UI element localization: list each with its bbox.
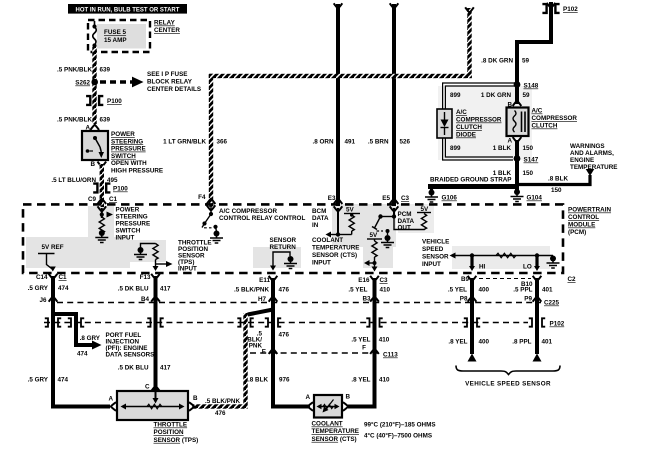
svg-text:474: 474 <box>58 285 69 292</box>
PCM data out label <box>398 211 415 232</box>
A/C compressor clutch box <box>507 108 529 137</box>
svg-text:COMPRESSOR: COMPRESSOR <box>532 115 578 122</box>
svg-text:.8 ORN: .8 ORN <box>313 139 334 146</box>
svg-text:99°C (210°F)–185 OHMS: 99°C (210°F)–185 OHMS <box>364 421 436 429</box>
terminal A of clutch <box>507 137 521 144</box>
thin dashed link B9-B10 <box>479 278 531 280</box>
svg-text:C3: C3 <box>401 195 410 202</box>
svg-text:SENSOR: SENSOR <box>270 237 297 244</box>
svg-text:POSITION: POSITION <box>154 429 185 436</box>
svg-text:1 DK GRN: 1 DK GRN <box>481 92 512 99</box>
svg-text:.5 YEL: .5 YEL <box>348 287 367 294</box>
wire .8 BLK 150 to warnings <box>517 175 590 194</box>
warnings and alarms note <box>570 143 617 171</box>
svg-text:E16: E16 <box>358 277 370 284</box>
svg-text:C1: C1 <box>109 196 118 203</box>
svg-text:CONTROL: CONTROL <box>568 214 599 221</box>
PS switch input label <box>116 207 151 242</box>
wire B to C9 (.5 LT BLU/ORN 495, hatched) <box>100 164 104 207</box>
svg-text:417: 417 <box>160 365 171 372</box>
svg-text:SEE I P FUSE: SEE I P FUSE <box>147 71 187 78</box>
TPS input circuit <box>134 244 173 272</box>
svg-text:OPEN WITH: OPEN WITH <box>111 160 147 167</box>
svg-text:.8 GRY: .8 GRY <box>80 335 101 342</box>
svg-text:E5: E5 <box>382 195 390 202</box>
splice S147 <box>514 155 539 163</box>
wire fuse to PS switch (.5 PNK/BLK 639, hatched) <box>92 46 96 124</box>
svg-text:RETURN: RETURN <box>270 244 297 251</box>
svg-text:LO: LO <box>523 264 532 271</box>
svg-text:526: 526 <box>400 139 411 146</box>
connector dashed line 1 (C225) <box>57 300 560 307</box>
svg-text:ENGINE: ENGINE <box>570 157 594 164</box>
svg-text:J6: J6 <box>39 297 47 304</box>
svg-text:150: 150 <box>523 145 534 152</box>
svg-text:HIGH PRESSURE: HIGH PRESSURE <box>111 168 163 175</box>
svg-text:S147: S147 <box>524 157 539 164</box>
wire E16 to F to CTS B <box>348 301 390 407</box>
svg-text:E3: E3 <box>328 195 336 202</box>
svg-text:POWERTRAIN: POWERTRAIN <box>568 207 611 214</box>
svg-text:639: 639 <box>100 117 111 124</box>
A/C compressor clutch diode box <box>437 109 452 138</box>
svg-text:DIODE: DIODE <box>456 132 476 139</box>
svg-text:COOLANT: COOLANT <box>312 421 343 428</box>
svg-text:OUT: OUT <box>398 225 411 232</box>
label .8 GRY 474 <box>77 335 101 358</box>
svg-text:A/C COMPRESSOR: A/C COMPRESSOR <box>219 208 278 215</box>
svg-text:STEERING: STEERING <box>116 214 148 221</box>
banner HOT IN RUN, BULB TEST OR START <box>68 4 187 14</box>
svg-text:HI: HI <box>479 264 486 271</box>
svg-text:SWITCH: SWITCH <box>111 153 136 160</box>
svg-text:5V: 5V <box>370 232 379 239</box>
svg-text:.8 YEL: .8 YEL <box>351 377 370 384</box>
svg-text:.5 BLK/PNK: .5 BLK/PNK <box>234 287 269 294</box>
svg-text:TEMPERATURE: TEMPERATURE <box>312 428 359 435</box>
relay center label <box>154 20 180 35</box>
svg-text:C2: C2 <box>568 276 577 283</box>
TPS input label <box>178 240 212 273</box>
svg-text:C113: C113 <box>383 352 398 359</box>
svg-text:899: 899 <box>450 92 461 99</box>
throttle position sensor box <box>117 391 188 420</box>
svg-text:BLOCK RELAY: BLOCK RELAY <box>147 79 193 86</box>
terminal B of PS switch <box>90 161 106 168</box>
label 1 LT GRN/BLK 366 <box>163 139 227 146</box>
CTS terminals <box>305 394 350 411</box>
bottom exit C14/C1 wire .5 GRY 474 <box>28 274 69 301</box>
clutch label <box>532 108 578 130</box>
svg-text:.5 YEL: .5 YEL <box>351 336 370 343</box>
svg-text:C3: C3 <box>380 277 389 284</box>
wire E11 to E (via H7) <box>271 301 275 356</box>
svg-text:400: 400 <box>479 339 490 346</box>
svg-text:DATA: DATA <box>312 215 329 222</box>
svg-text:CLUTCH: CLUTCH <box>456 124 482 131</box>
label .5 GRY 474 (lower) <box>28 377 69 384</box>
svg-text:.8 BLK: .8 BLK <box>548 176 568 183</box>
svg-text:.8 DK GRN: .8 DK GRN <box>481 58 513 65</box>
svg-text:476: 476 <box>279 287 290 294</box>
svg-text:476: 476 <box>215 410 226 417</box>
wire 1 LT GRN/BLK 366 (hatched) from top to F4 <box>209 7 474 207</box>
CTS input circuit <box>364 232 382 272</box>
label .5 BLK/PNK 476 (stacked) <box>247 331 289 350</box>
dashed arrow to IP fuse block <box>100 77 144 88</box>
label .8 DK GRN 59 <box>481 58 529 65</box>
svg-text:SENSOR (CTS): SENSOR (CTS) <box>312 436 357 443</box>
svg-text:B: B <box>346 394 351 401</box>
bottom exit B10/C2 wire .5 PPL 401 <box>513 276 576 301</box>
BCM data in circuit <box>326 199 361 238</box>
svg-text:G106: G106 <box>442 195 458 202</box>
svg-text:TEMPERATURE: TEMPERATURE <box>570 164 617 171</box>
svg-text:F4: F4 <box>198 194 206 201</box>
svg-text:.5 PPL: .5 PPL <box>513 287 532 294</box>
svg-text:BRAIDED GROUND STRAP: BRAIDED GROUND STRAP <box>430 177 512 184</box>
svg-text:VEHICLE SPEED SENSOR: VEHICLE SPEED SENSOR <box>465 381 551 388</box>
connector dashed line 2 (P102) <box>44 321 565 328</box>
svg-text:150: 150 <box>551 187 562 194</box>
svg-text:.5 PNK/BLK: .5 PNK/BLK <box>57 67 92 74</box>
svg-text:P100: P100 <box>107 98 122 105</box>
line1 terminal labels <box>39 296 532 305</box>
label .5 LT BLU/ORN 495 <box>51 177 118 184</box>
PCM dashed box <box>23 204 563 273</box>
svg-text:B4: B4 <box>141 296 150 303</box>
svg-text:C9: C9 <box>88 196 97 203</box>
svg-text:SENSOR: SENSOR <box>422 254 449 261</box>
terminal B of clutch <box>507 101 521 109</box>
svg-text:B3: B3 <box>362 296 371 303</box>
svg-text:WARNINGS: WARNINGS <box>570 143 605 150</box>
svg-text:F: F <box>362 345 366 352</box>
svg-text:59: 59 <box>522 58 530 65</box>
svg-text:401: 401 <box>542 287 553 294</box>
PCM label <box>568 207 611 237</box>
svg-text:CENTER: CENTER <box>154 27 180 34</box>
svg-text:474: 474 <box>58 377 69 384</box>
line3 terminals E and F <box>262 345 379 356</box>
PS switch label <box>111 131 163 175</box>
terminals C9 / C1 <box>88 196 118 204</box>
svg-text:410: 410 <box>379 377 390 384</box>
5V REF source <box>38 244 64 272</box>
svg-text:P100: P100 <box>113 186 128 193</box>
TPS label <box>154 422 199 444</box>
splice S262 <box>75 79 98 87</box>
label .5 PNK/BLK 639 (lower) <box>57 117 111 124</box>
branch wire to TPS B (hatched) <box>192 310 273 409</box>
svg-text:SWITCH: SWITCH <box>116 228 141 235</box>
svg-text:5V REF: 5V REF <box>42 244 64 251</box>
svg-text:476: 476 <box>279 331 290 338</box>
svg-text:4°C (40°F)–7500 OHMS: 4°C (40°F)–7500 OHMS <box>364 432 432 440</box>
svg-text:15 AMP: 15 AMP <box>104 37 127 44</box>
A/C compressor control relay circuit <box>202 199 223 243</box>
label .5 BLK/PNK 476 (at TPS B) <box>205 398 240 417</box>
sensor return circuit <box>270 237 298 271</box>
bottom exit E16/C3 wire .5 YEL 410 <box>348 276 390 301</box>
svg-text:C1: C1 <box>59 274 68 281</box>
svg-text:.5 BLK/PNK: .5 BLK/PNK <box>205 398 240 405</box>
svg-text:F13: F13 <box>140 274 151 281</box>
svg-text:491: 491 <box>345 139 356 146</box>
svg-text:POWER: POWER <box>116 207 140 214</box>
svg-text:FUSE 5: FUSE 5 <box>104 29 127 36</box>
PCM top edge terminals <box>198 194 409 202</box>
svg-text:899: 899 <box>450 145 461 152</box>
line1 crossing flares <box>49 297 542 302</box>
label .5 BRN 526 <box>368 139 411 146</box>
fuse 5 label <box>104 29 127 44</box>
svg-text:P9: P9 <box>524 296 532 303</box>
svg-text:PRESSURE: PRESSURE <box>116 221 151 228</box>
svg-text:401: 401 <box>542 339 553 346</box>
svg-text:(PCM): (PCM) <box>568 229 586 236</box>
svg-text:C14: C14 <box>36 274 48 281</box>
svg-text:A: A <box>507 138 512 145</box>
svg-text:INPUT: INPUT <box>116 235 135 242</box>
svg-text:VEHICLE: VEHICLE <box>422 239 449 246</box>
svg-text:G104: G104 <box>527 195 543 202</box>
svg-text:.5 DK BLU: .5 DK BLU <box>118 286 149 293</box>
wire .5 DK BLU to TPS C <box>118 301 171 391</box>
connector P102 at top <box>542 2 578 44</box>
bottom exit B9 wire .5 YEL 400 <box>448 276 490 301</box>
svg-text:410: 410 <box>379 336 390 343</box>
svg-text:P102: P102 <box>563 6 578 13</box>
label 899 (lower) <box>450 145 461 152</box>
TPS terminals <box>108 384 198 411</box>
fuse F5 symbol <box>92 21 96 48</box>
svg-text:976: 976 <box>279 377 290 384</box>
PFI note <box>106 332 155 359</box>
svg-text:150: 150 <box>523 170 534 177</box>
svg-text:INPUT: INPUT <box>178 266 197 273</box>
svg-text:A/C: A/C <box>456 109 467 116</box>
svg-text:.8 BLK: .8 BLK <box>248 377 268 384</box>
terminal A of PS switch <box>85 125 99 132</box>
svg-text:1 LT GRN/BLK: 1 LT GRN/BLK <box>163 139 206 146</box>
svg-text:PCM: PCM <box>398 211 412 218</box>
svg-text:.8 YEL: .8 YEL <box>448 339 467 346</box>
svg-text:S262: S262 <box>75 80 90 87</box>
svg-text:639: 639 <box>100 67 111 74</box>
wires crossing line1/line2 (left) <box>51 301 55 407</box>
svg-text:MODULE: MODULE <box>568 222 595 229</box>
svg-text:.5 GRY: .5 GRY <box>28 285 49 292</box>
wire P102 to S148 (.8 DK GRN 59) <box>517 42 551 84</box>
svg-text:CLUTCH: CLUTCH <box>532 123 558 130</box>
vertical wire .8 ORN 491 <box>334 3 343 206</box>
relay center dashed box <box>88 20 150 52</box>
svg-text:E11: E11 <box>259 277 270 284</box>
svg-text:INPUT: INPUT <box>422 261 441 268</box>
wire S147 to G104 (1 BLK 150) <box>493 159 534 191</box>
svg-text:IN: IN <box>312 222 319 229</box>
svg-text:C225: C225 <box>544 300 560 307</box>
coolant temperature sensor box <box>314 395 342 418</box>
svg-text:.5 DK BLU: .5 DK BLU <box>118 365 149 372</box>
svg-text:E: E <box>262 349 266 356</box>
svg-text:SPEED: SPEED <box>422 246 444 253</box>
svg-text:COOLANT: COOLANT <box>312 237 343 244</box>
diode label <box>456 109 502 139</box>
VSS wire B10 lower (.8 PPL 401) <box>512 301 552 362</box>
label .5 PNK/BLK 639 (upper) <box>57 67 111 74</box>
svg-text:INPUT: INPUT <box>312 260 331 267</box>
svg-text:HOT IN RUN, BULB TEST OR START: HOT IN RUN, BULB TEST OR START <box>76 7 180 13</box>
svg-text:.5 GRY: .5 GRY <box>28 377 49 384</box>
svg-text:S148: S148 <box>524 83 539 90</box>
connector P100 (lower) <box>93 184 128 193</box>
ground G104 <box>511 189 543 202</box>
svg-text:TEMPERATURE: TEMPERATURE <box>312 245 359 252</box>
svg-text:.5 YEL: .5 YEL <box>448 287 467 294</box>
line2 bracket pairs <box>45 318 545 326</box>
wire clutch to S147 (1 BLK 150) <box>493 140 534 158</box>
svg-text:P102: P102 <box>550 321 565 328</box>
connector P100 (upper) <box>86 96 122 105</box>
svg-text:A/C: A/C <box>532 108 543 115</box>
svg-text:H7: H7 <box>258 296 267 303</box>
svg-text:DATA SENSORS: DATA SENSORS <box>106 352 155 359</box>
wire .5 GRY to TPS A <box>53 405 110 407</box>
bottom exit F13 wire .5 DK BLU 417 <box>118 274 171 301</box>
VSS brace <box>456 366 560 388</box>
wire S148 to clutch (1 DK GRN 59) <box>481 85 530 105</box>
svg-text:C: C <box>145 384 150 391</box>
svg-text:PNK: PNK <box>249 342 263 349</box>
wire .8 BLK 976 to CTS A <box>248 352 310 407</box>
A/C relay control label <box>219 208 305 222</box>
svg-text:COMPRESSOR: COMPRESSOR <box>456 117 502 124</box>
svg-text:400: 400 <box>479 287 490 294</box>
braided ground strap <box>428 177 517 187</box>
svg-text:410: 410 <box>380 287 391 294</box>
svg-text:SENSOR (TPS): SENSOR (TPS) <box>154 437 199 444</box>
svg-text:POWER: POWER <box>111 131 135 138</box>
svg-text:5V: 5V <box>421 206 430 213</box>
svg-text:P8: P8 <box>460 296 468 303</box>
svg-text:STEERING: STEERING <box>111 138 143 145</box>
scan shading patches <box>26 86 550 269</box>
bottom exit E11 wire .5 BLK/PNK 476 <box>234 276 290 301</box>
svg-text:.5 LT BLU/ORN: .5 LT BLU/ORN <box>51 177 96 184</box>
svg-text:RELAY: RELAY <box>154 20 176 27</box>
thin wire diode to S147 <box>443 138 513 160</box>
svg-text:SENSOR (CTS): SENSOR (CTS) <box>312 252 357 259</box>
svg-text:1 BLK: 1 BLK <box>493 145 512 152</box>
svg-text:B: B <box>90 161 95 168</box>
svg-text:B: B <box>193 395 198 402</box>
VSS wire B9 lower (.8 YEL 400) <box>448 301 489 362</box>
ground G106 <box>425 187 457 203</box>
VSS input label <box>422 239 449 269</box>
label .8 ORN 491 <box>313 139 356 146</box>
svg-text:AND ALARMS,: AND ALARMS, <box>570 150 614 157</box>
svg-text:BCM: BCM <box>312 208 326 215</box>
vertical wire .5 BRN 526 <box>390 3 399 206</box>
svg-text:PRESSURE: PRESSURE <box>111 146 146 153</box>
CTS input label <box>312 237 359 267</box>
thin wire 899 to diode <box>443 83 517 109</box>
svg-text:A: A <box>305 394 310 401</box>
splice S148 <box>514 81 539 89</box>
VSS input circuit <box>450 253 560 272</box>
CTS resistance note <box>364 421 436 440</box>
svg-text:5V: 5V <box>346 207 355 214</box>
BCM data in label <box>312 208 329 229</box>
svg-text:366: 366 <box>217 139 228 146</box>
svg-text:59: 59 <box>523 92 531 99</box>
CTS label <box>312 421 359 443</box>
svg-text:A: A <box>108 396 113 403</box>
svg-text:474: 474 <box>77 351 88 358</box>
connector dashed line 3 C113 <box>250 352 398 359</box>
svg-text:.8 PPL: .8 PPL <box>512 339 531 346</box>
svg-text:417: 417 <box>160 286 171 293</box>
PCM data out circuit <box>372 199 431 248</box>
svg-text:THROTTLE: THROTTLE <box>154 422 188 429</box>
svg-text:CONTROL RELAY CONTROL: CONTROL RELAY CONTROL <box>219 215 305 222</box>
svg-text:.5 BRN: .5 BRN <box>368 139 389 146</box>
PS switch input circuit inside PCM <box>95 206 113 242</box>
PFI branch wire .8 GRY 474 <box>53 307 102 350</box>
power steering pressure switch box <box>82 131 108 160</box>
svg-text:.5 PNK/BLK: .5 PNK/BLK <box>57 117 92 124</box>
see IP fuse block note <box>147 71 201 93</box>
warnings triangle <box>586 169 595 176</box>
svg-text:CENTER DETAILS: CENTER DETAILS <box>147 86 201 93</box>
